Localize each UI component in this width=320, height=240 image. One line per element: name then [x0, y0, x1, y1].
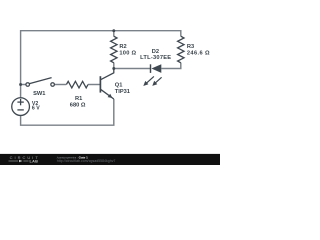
- svg-text:LAB: LAB: [30, 160, 39, 164]
- resistor R2: [111, 36, 117, 63]
- svg-text:R3: R3: [187, 44, 194, 50]
- svg-text:R2: R2: [119, 44, 126, 50]
- svg-text:R1: R1: [75, 96, 82, 102]
- wire: junction to SW1 contact: [21, 84, 26, 86]
- wire: SW1 to R1: [54, 84, 66, 86]
- resistor R3: [178, 36, 184, 63]
- wire: R1 to Q1 base: [88, 84, 100, 86]
- wire: R2 top lead: [113, 31, 115, 37]
- wire: top rail + left rail: [21, 31, 181, 98]
- wire: collector node to D2 cathode: [114, 68, 150, 70]
- svg-text:SW1: SW1: [33, 91, 45, 97]
- LED D2: [143, 64, 161, 86]
- svg-text:Q1: Q1: [115, 82, 123, 88]
- svg-text:6 V: 6 V: [32, 106, 40, 112]
- resistor R1: [66, 81, 88, 88]
- svg-text:LTL-307EE: LTL-307EE: [140, 55, 171, 61]
- svg-text:680 Ω: 680 Ω: [70, 102, 86, 108]
- wire: V2 bottom to emitter (bottom rail): [21, 99, 114, 125]
- node: junction dot V2/SW1: [19, 83, 22, 86]
- svg-text:246.6 Ω: 246.6 Ω: [187, 51, 210, 57]
- transistor Q1: [100, 69, 113, 100]
- svg-text:D2: D2: [152, 49, 159, 55]
- LED emission arrows: [146, 76, 154, 83]
- svg-text:TIP31: TIP31: [115, 89, 130, 95]
- switch SW1: [26, 78, 54, 87]
- svg-text:100 Ω: 100 Ω: [119, 51, 136, 57]
- node: junction dot collector/R2/D2: [112, 67, 115, 70]
- node: junction dot R2 top: [112, 29, 115, 32]
- voltage source V2: [12, 98, 30, 116]
- watermark bar: [0, 154, 220, 165]
- wire: D2 anode to R3 bottom: [161, 63, 181, 69]
- svg-text:http://circuitlab.com/cgsad558: http://circuitlab.com/cgsad5584kghv7: [57, 159, 116, 163]
- wire: R2 bottom lead: [113, 63, 115, 69]
